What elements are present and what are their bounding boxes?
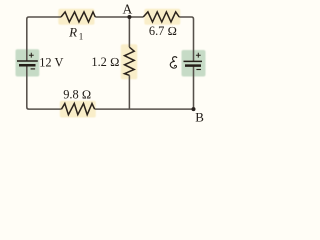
wire middle branch lower — [128, 75, 130, 109]
resistor 9.8 ohm zigzag — [62, 104, 95, 115]
battery EMF minus sign — [196, 69, 201, 71]
wire left branch lower and bottom left segment — [27, 66, 62, 109]
battery 12V highlight box — [16, 49, 40, 76]
resistor 6.7 ohm zigzag — [143, 12, 179, 22]
wire top middle segment — [95, 16, 143, 18]
svg-text:6.7 Ω: 6.7 Ω — [149, 24, 177, 38]
battery EMF plus sign — [196, 53, 201, 58]
svg-text:R: R — [68, 25, 77, 40]
wire top right segment and right branch upper — [179, 17, 193, 61]
battery 12V minus sign — [31, 68, 35, 70]
label EMF script E — [170, 57, 177, 68]
resistor 1.2 ohm zigzag — [125, 47, 135, 75]
node A dot — [127, 15, 131, 19]
resistor R1 zigzag — [61, 12, 95, 22]
wire right branch lower — [193, 66, 195, 109]
wire bottom right segment — [95, 108, 194, 110]
svg-text:12 V: 12 V — [39, 56, 63, 70]
battery 12V short thick plate — [19, 64, 36, 67]
resistor 1.2 ohm highlight box — [121, 44, 138, 79]
svg-text:1.2 Ω: 1.2 Ω — [91, 55, 119, 69]
svg-text:1: 1 — [79, 31, 84, 41]
resistor 9.8 ohm highlight box — [60, 101, 96, 118]
svg-text:9.8 Ω: 9.8 Ω — [63, 88, 91, 102]
svg-text:B: B — [195, 109, 204, 124]
battery EMF long plate — [184, 60, 203, 62]
wire middle branch upper — [128, 17, 130, 47]
battery 12V plus sign — [29, 53, 34, 58]
battery 12V long plate — [17, 60, 38, 62]
battery EMF short thick plate — [185, 64, 201, 67]
battery EMF highlight box — [182, 50, 206, 77]
resistor R1 highlight box — [58, 9, 94, 25]
node B dot — [192, 107, 196, 111]
svg-text:A: A — [123, 1, 133, 16]
resistor 6.7 ohm highlight box — [144, 9, 180, 25]
wire left branch upper — [27, 17, 61, 61]
